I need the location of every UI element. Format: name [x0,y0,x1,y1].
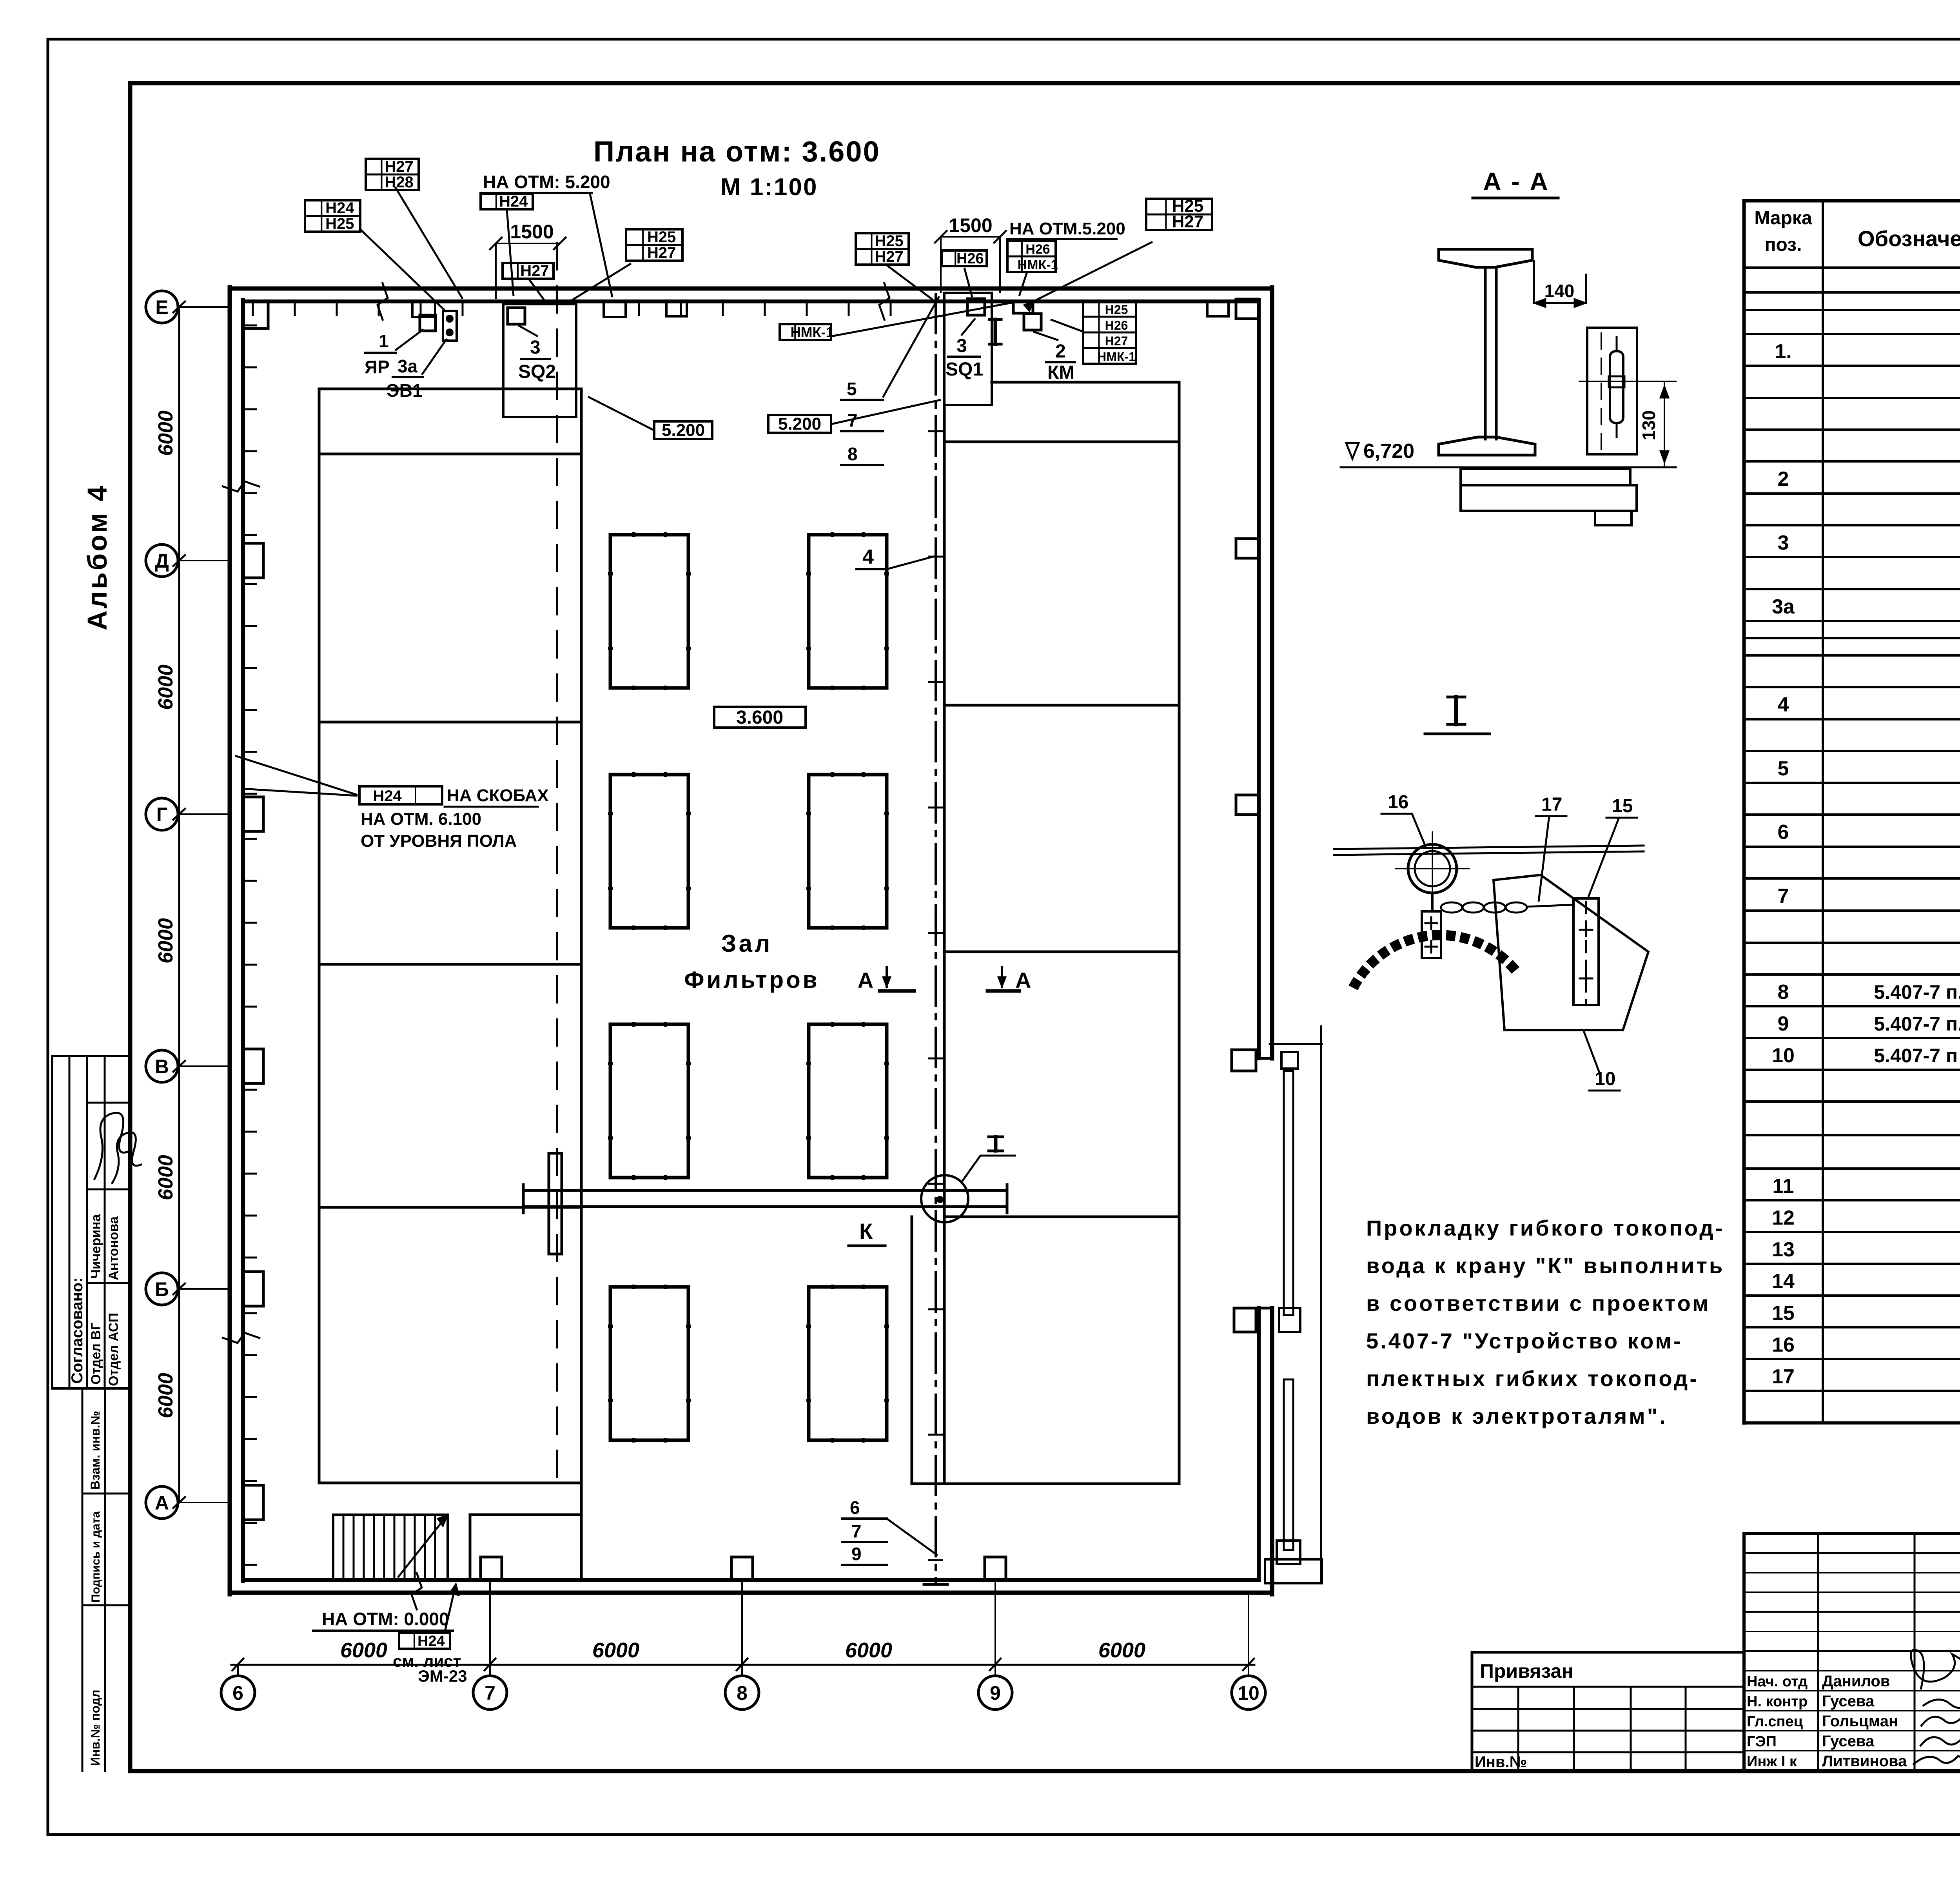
bracket dashed line [1601,333,1602,451]
vestibule wall left [469,1515,472,1580]
label box Н25/Н27 [856,232,909,265]
svg-text:4: 4 [1778,693,1789,716]
svg-text:6: 6 [232,1682,243,1704]
outer wall top [230,287,1272,291]
dim 1500 left [490,221,566,298]
label box Н24/Н25 [305,200,360,232]
note text block [1366,1216,1724,1428]
elevation mark 6.720 [1341,440,1676,467]
svg-text:14: 14 [1772,1270,1795,1293]
svg-text:Н24: Н24 [417,1633,445,1650]
YAR 3a EV1 callout [365,329,447,401]
svg-text:Отдел ВГ: Отдел ВГ [89,1323,103,1385]
right room partition 1 [944,441,1179,443]
svg-text:8: 8 [1778,981,1789,1004]
SQ1 switch symbol [967,299,985,315]
svg-text:Н26: Н26 [1105,318,1128,332]
callout 6-7-9 [842,1497,938,1565]
staircase [333,1515,448,1580]
detail plate polygon [1494,875,1648,1030]
base plates [1461,469,1637,525]
detail circle I [921,1175,968,1222]
svg-text:6000: 6000 [592,1639,639,1662]
NMK bracket below wall [1013,301,1033,313]
right wall square lower [1234,1308,1256,1332]
svg-text:15: 15 [1772,1302,1795,1325]
svg-text:5.200: 5.200 [662,421,705,440]
svg-text:6000: 6000 [154,664,177,710]
svg-text:6000: 6000 [154,410,177,456]
svg-text:Антонова: Антонова [106,1216,121,1280]
right wall pilaster 1 [1236,299,1259,319]
SQ2 switch symbol [508,308,525,324]
svg-text:6,720: 6,720 [1363,440,1414,463]
hall bottom line [912,1483,944,1485]
wall break zigzag bottom [412,1572,422,1610]
detail I leader [961,1156,1016,1183]
privyazan box [1472,1652,1744,1771]
svg-text:ОТ УРОВНЯ ПОЛА: ОТ УРОВНЯ ПОЛА [361,831,517,851]
label box Н24 [481,193,533,210]
grid bubble А [146,1486,230,1519]
bracket plate section [1587,328,1637,454]
svg-text:В: В [155,1056,169,1078]
YAR box [420,315,436,331]
svg-text:6000: 6000 [845,1639,892,1662]
svg-text:6000: 6000 [154,1155,177,1200]
svg-text:5.407-7 п.51: 5.407-7 п.51 [1874,1013,1960,1035]
SQ2 room [503,304,576,417]
svg-text:Инж I к: Инж I к [1747,1753,1797,1770]
monorail I mark near SQ1 [989,319,1001,344]
N24 na skobah label [235,756,549,851]
svg-text:5: 5 [1778,757,1789,780]
svg-text:Н24: Н24 [373,788,402,805]
svg-text:3: 3 [956,336,967,356]
svg-text:Инв.№ подл: Инв.№ подл [88,1689,102,1766]
inner wall right lower [1257,1308,1261,1580]
svg-text:Инв.№: Инв.№ [1475,1753,1527,1771]
svg-text:Гусева: Гусева [1822,1693,1875,1710]
svg-text:3: 3 [1778,532,1789,554]
svg-text:Н27: Н27 [385,158,413,175]
svg-text:6: 6 [850,1497,860,1518]
right duct upper box [1279,1308,1300,1332]
dim 140 [1534,261,1586,307]
3.600 box [714,707,806,728]
SQ1 room [944,293,992,405]
svg-text:2: 2 [1778,468,1789,490]
grid bubble 7 [473,1659,507,1709]
svg-text:Е: Е [155,296,168,318]
svg-text:10: 10 [1772,1044,1795,1067]
outer wall right lower [1270,1308,1274,1594]
detail leader 17 [1536,794,1566,902]
svg-text:9: 9 [990,1682,1001,1704]
leader lines right cluster [831,242,1152,336]
NA OTM 5.200 label right [1007,219,1125,239]
label box Н25/Н27 [1146,196,1212,231]
grid line 10 [1248,1594,1249,1665]
detail ring [1396,832,1469,906]
svg-text:НА ОТМ: 5.200: НА ОТМ: 5.200 [483,172,610,192]
svg-text:Н24: Н24 [499,193,528,210]
label box Н27/Н28 [366,158,419,191]
left wall pilaster 2 [243,797,263,831]
svg-text:6000: 6000 [154,1373,177,1418]
top wall hanger mark 2 [666,301,687,316]
detail leader 16 [1381,792,1425,846]
svg-text:Данилов: Данилов [1822,1673,1890,1690]
section A-A title [1473,167,1558,198]
right wall pilaster 2 [1236,539,1259,558]
I-beam web [1485,267,1496,439]
svg-text:Взам. инв.№: Взам. инв.№ [88,1411,102,1490]
label box Н24 [399,1633,450,1650]
detail turnbuckle [1573,898,1599,1005]
SQ1 callout [946,318,983,380]
exterior stub right [1270,1043,1322,1045]
svg-text:А: А [858,968,873,993]
svg-text:Гл.спец: Гл.спец [1747,1713,1803,1730]
table header text [1754,205,1960,260]
arrow on leader [1024,301,1034,311]
grid bubble Е [146,291,230,323]
svg-text:5.407-7 п.48: 5.407-7 п.48 [1874,981,1960,1003]
svg-text:5.407-7 "Устройство ком-: 5.407-7 "Устройство ком- [1366,1328,1683,1353]
svg-text:Чичерина: Чичерина [89,1214,103,1279]
inner wall right upper [1257,300,1261,1058]
inner wall top [243,299,1259,303]
I-beam bottom flange [1439,437,1535,455]
svg-text:НА СКОБАХ: НА СКОБАХ [447,786,549,805]
left room partition 1 [319,453,581,455]
label box НМК-1 [780,324,834,340]
svg-text:16: 16 [1388,792,1408,813]
exterior stoop bottom right [1265,1559,1322,1583]
top wall panel ticks [253,301,891,316]
callout 4 [857,546,936,569]
section mark A left [858,967,914,993]
svg-text:3.600: 3.600 [736,707,783,728]
svg-text:10: 10 [1595,1069,1615,1089]
svg-text:3а: 3а [397,356,418,376]
left wall pilaster 3 [243,1049,263,1083]
svg-text:Н27: Н27 [1105,334,1128,348]
right room partition 2 [944,704,1179,707]
svg-text:НА ОТМ: 0.000: НА ОТМ: 0.000 [322,1609,449,1629]
top wall hanger mark 3 [1207,301,1229,316]
inner wall left [241,300,245,1581]
inner wall bottom [243,1578,1259,1582]
svg-text:9: 9 [1778,1013,1789,1035]
svg-text:Привязан: Привязан [1480,1660,1573,1682]
filter tank 2 [809,535,887,688]
label box Н26/НМК-1 [1007,241,1058,272]
grid bubble Д [146,544,230,577]
svg-text:3: 3 [530,337,541,358]
svg-text:ЯР: ЯР [365,357,390,377]
leader lines left cluster [360,187,631,312]
outer wall right upper [1270,287,1274,1058]
svg-text:Нач. отд: Нач. отд [1747,1673,1808,1690]
svg-text:17: 17 [1541,794,1562,815]
svg-text:5.407-7 п 53: 5.407-7 п 53 [1874,1045,1960,1067]
svg-text:НМК-1: НМК-1 [1018,258,1058,272]
svg-text:6000: 6000 [1098,1639,1145,1662]
svg-text:1.: 1. [1775,340,1791,363]
grid line 7 [489,1580,491,1665]
svg-text:5: 5 [847,379,857,399]
svg-text:10: 10 [1238,1682,1259,1704]
svg-text:4: 4 [862,546,874,568]
crane axis dash-dot [935,294,937,1584]
svg-text:Фильтров: Фильтров [684,967,819,993]
svg-text:1500: 1500 [510,221,554,243]
right duct upper [1284,1071,1293,1315]
svg-text:13: 13 [1772,1238,1795,1261]
left wall pilaster 1 [243,543,263,578]
grid bubble 6 [221,1659,255,1709]
svg-text:КМ: КМ [1047,362,1074,383]
right wall column box [1232,1050,1256,1071]
label box Н27 [503,262,554,279]
outer wall left [228,287,232,1594]
bottom wall column grid 8 [731,1557,753,1580]
right duct lower box [1277,1541,1300,1564]
sm list EM-23 [393,1584,467,1685]
I-beam top flange [1439,249,1532,267]
NA OTM 0.000 label [313,1609,453,1631]
filter tank 6 [809,1024,887,1178]
wall break zigzag left [222,481,260,492]
svg-text:План на отм: 3.600: План на отм: 3.600 [593,135,880,168]
svg-text:1: 1 [379,331,389,351]
svg-text:Б: Б [155,1278,169,1300]
parts table [1744,201,1960,1423]
svg-text:Марка: Марка [1754,208,1812,229]
svg-text:Литвинова: Литвинова [1822,1753,1907,1770]
svg-text:17: 17 [1772,1365,1795,1388]
detail rail [1334,846,1644,855]
table rows text [1772,272,1960,1420]
svg-text:Н27: Н27 [1172,212,1203,231]
svg-text:140: 140 [1544,281,1575,301]
outer wall bottom [230,1591,1272,1595]
title block signatures [1911,1650,1960,1765]
svg-text:Н24: Н24 [325,200,354,217]
section mark A right [987,967,1031,993]
top-left corner pilaster [243,301,268,328]
grid line 9 [995,1580,996,1665]
svg-text:Д: Д [155,550,169,572]
svg-text:12: 12 [1772,1207,1795,1229]
EV1 button [443,311,457,341]
svg-text:Н. контр: Н. контр [1747,1693,1808,1710]
KM contactor box [1024,314,1041,330]
grid bubble 8 [725,1659,759,1709]
detail title I [1425,697,1490,734]
left room partition 3 [319,963,581,966]
KM callout [1033,332,1075,383]
svg-text:8: 8 [737,1682,748,1704]
svg-text:Прокладку гибкого токопод-: Прокладку гибкого токопод- [1366,1216,1724,1240]
svg-text:2: 2 [1055,341,1066,362]
switch on bracket [1609,337,1624,437]
NA OTM 5.200 label left [481,172,610,193]
svg-text:М 1:100: М 1:100 [720,174,818,201]
dim 1500 right [935,214,1006,292]
svg-text:К: К [859,1219,873,1243]
svg-text:Н25: Н25 [875,232,903,250]
svg-text:15: 15 [1612,796,1633,817]
crane beam [523,1185,1007,1213]
right wall pilaster 3 [1236,795,1259,815]
hall right edge lower [911,1217,913,1484]
svg-text:3а: 3а [1772,595,1795,618]
svg-text:6: 6 [1778,821,1789,844]
detail hook block [1422,893,1441,958]
soglasovano block [52,1056,130,1388]
5.200 box 2 [768,400,941,434]
detail I mark [989,1137,1003,1151]
right duct lower [1284,1379,1293,1550]
svg-text:1500: 1500 [949,214,992,236]
svg-text:ЭМ-23: ЭМ-23 [418,1667,467,1685]
detail festoon arc [1353,935,1516,988]
svg-text:Н25: Н25 [1105,303,1128,317]
svg-text:НМК-1: НМК-1 [791,324,834,340]
left wall panel ticks [243,325,257,1565]
svg-text:водов к электроталям".: водов к электроталям". [1366,1404,1668,1428]
svg-text:5.200: 5.200 [778,414,821,434]
wall break zigzag top [377,282,388,321]
left room partition 4 [319,1206,581,1209]
svg-text:Н25: Н25 [647,229,676,246]
svg-text:Обозначение: Обозначение [1858,226,1960,251]
svg-text:Гусева: Гусева [1822,1733,1875,1750]
svg-text:в соответствии с проектом: в соответствии с проектом [1366,1291,1710,1316]
svg-text:ГЭП: ГЭП [1747,1733,1777,1750]
bottom wall column grid 9 [985,1557,1006,1580]
svg-text:Гольцман: Гольцман [1822,1713,1898,1730]
right room partition 3 [944,951,1179,953]
svg-text:А: А [155,1492,169,1514]
svg-text:Н25: Н25 [325,215,354,232]
left dashed axis [556,243,558,1486]
svg-text:А - А: А - А [1483,167,1549,196]
detail leader 15 [1588,796,1637,897]
filter tank 5 [610,1024,688,1178]
filter tank 1 [610,535,688,688]
vzam inv cell [82,1388,130,1771]
callout 5-7-8 [841,296,939,465]
svg-text:Отдел АСП: Отдел АСП [106,1313,121,1386]
svg-text:SQ1: SQ1 [946,359,983,380]
svg-text:11: 11 [1773,1175,1794,1198]
label box Н26 [942,250,987,267]
detail chain [1441,902,1573,913]
svg-text:Н27: Н27 [520,262,549,279]
svg-text:НА ОТМ. 6.100: НА ОТМ. 6.100 [361,809,481,829]
top wall hanger mark SQ2 [604,301,626,317]
grid bubble Б [146,1273,230,1305]
svg-text:6000: 6000 [154,918,177,964]
left room partition 2 [319,721,581,724]
bottom grid dimension line [231,1664,1254,1666]
hall label [684,930,819,993]
svg-text:SQ2: SQ2 [518,361,556,382]
svg-text:16: 16 [1772,1334,1795,1356]
svg-text:Согласовано:: Согласовано: [69,1277,86,1384]
svg-text:7: 7 [485,1682,495,1704]
svg-text:Н27: Н27 [875,248,903,265]
right room block [944,382,1179,1484]
filter tank 7 [610,1287,688,1440]
svg-text:НМК-1: НМК-1 [1097,350,1136,364]
svg-text:А: А [1015,968,1031,993]
5.200 box 1 [588,397,712,440]
svg-text:6000: 6000 [340,1639,387,1662]
title block main [1744,1533,1960,1771]
signature squiggles left [94,1113,131,1180]
SQ2 callout [518,325,556,382]
left wall pilaster 4 [243,1272,263,1306]
filter tank 3 [610,775,688,928]
grid bubble 10 [1232,1659,1265,1709]
grid bubble 9 [978,1659,1012,1709]
bottom wall column grid 7 [481,1557,502,1580]
svg-text:Н28: Н28 [385,174,413,191]
svg-text:Подпись и дата: Подпись и дата [89,1511,102,1602]
vestibule wall right [580,1483,583,1580]
exterior line right [1320,1026,1322,1583]
svg-text:7: 7 [851,1521,862,1541]
filter tank 8 [809,1287,887,1440]
right room partition 4 [944,1216,1179,1218]
grid line 8 [741,1580,743,1665]
svg-text:НА ОТМ.5.200: НА ОТМ.5.200 [1009,219,1125,238]
wall break zigzag left 2 [222,1333,260,1343]
vestibule wall top [470,1513,581,1516]
svg-text:9: 9 [851,1544,862,1564]
left wall pilaster 5 [243,1485,263,1520]
svg-text:Н27: Н27 [647,244,676,261]
axis end mark bottom [924,1583,947,1586]
right wall opening caps [1259,1057,1272,1060]
wall break zigzag top 2 [879,282,889,321]
grid bubble Г [146,798,230,830]
label box Н25/Н27 [626,229,682,261]
svg-text:Зал: Зал [721,930,773,957]
svg-text:вода к крану "К" выполнить: вода к крану "К" выполнить [1366,1253,1724,1278]
svg-text:поз.: поз. [1765,234,1802,255]
svg-text:ЭВ1: ЭВ1 [387,380,423,401]
left room block [319,389,581,1483]
title block names [1747,1673,1907,1770]
small box right of wall [1281,1052,1298,1069]
svg-text:130: 130 [1639,410,1659,441]
grid bubble В [146,1050,230,1082]
svg-text:Г: Г [156,804,167,826]
svg-text:Альбом 4: Альбом 4 [82,484,113,630]
dim 130 [1579,381,1676,467]
beam support post [549,1153,562,1254]
top wall hanger mark 1 [412,301,435,317]
svg-text:8: 8 [848,444,858,464]
label box Н25/Н26/Н27/НМК-1 [1083,301,1136,364]
filter tank 4 [809,775,887,928]
